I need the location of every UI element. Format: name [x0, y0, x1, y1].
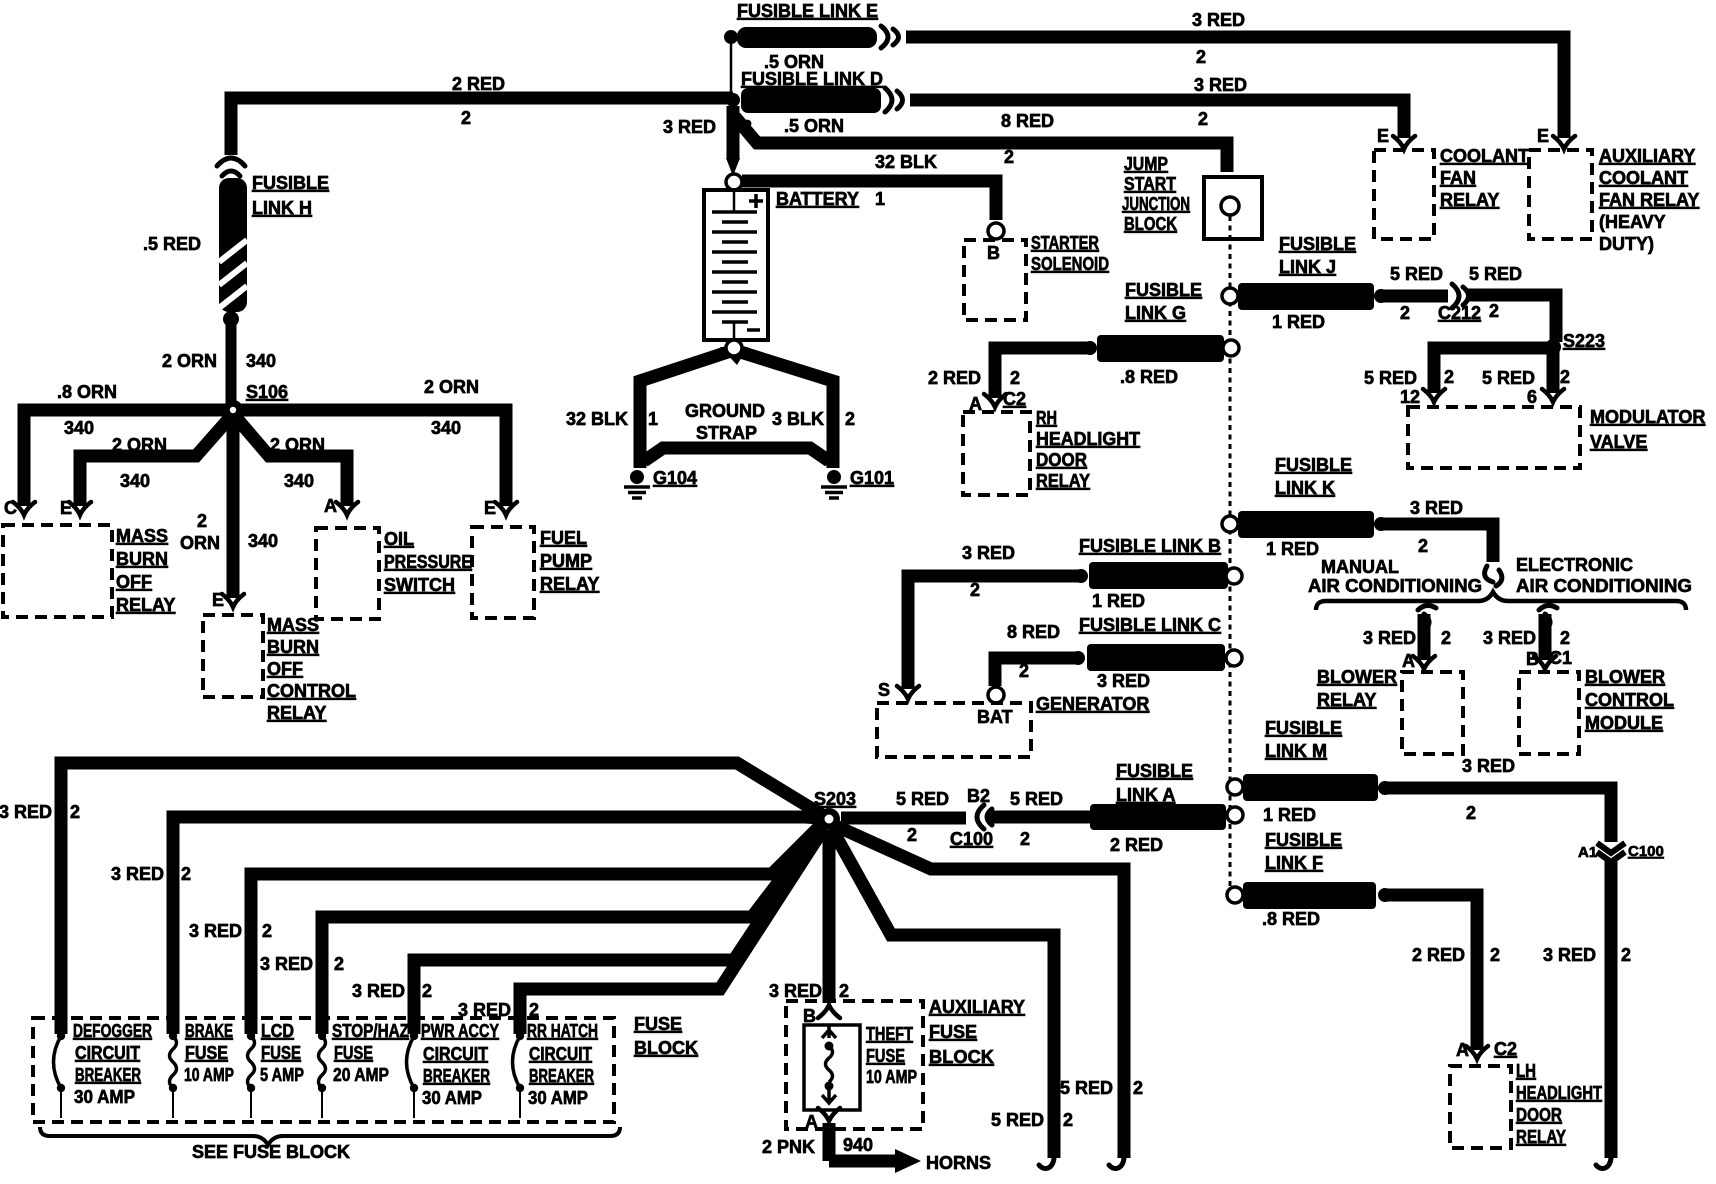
fuse block [33, 1018, 614, 1122]
mass burn off relay [3, 525, 112, 617]
svg-text:LINK A: LINK A [1116, 785, 1175, 805]
svg-text:BLOWER: BLOWER [1317, 667, 1397, 687]
svg-text:3 RED: 3 RED [1483, 628, 1536, 648]
svg-text:FUSE: FUSE [634, 1014, 682, 1034]
svg-text:2 ORN: 2 ORN [162, 351, 217, 371]
svg-text:FUSIBLE: FUSIBLE [1125, 280, 1202, 300]
fusible link G [1223, 340, 1239, 356]
svg-text:FUSE: FUSE [929, 1022, 977, 1042]
svg-text:RR HATCH: RR HATCH [527, 1021, 598, 1041]
svg-text:DOOR: DOOR [1036, 450, 1087, 470]
battery [704, 190, 768, 340]
svg-text:30 AMP: 30 AMP [422, 1088, 482, 1108]
svg-text:FUSIBLE LINK E: FUSIBLE LINK E [737, 1, 878, 21]
svg-text:2: 2 [1560, 628, 1570, 648]
svg-text:PUMP: PUMP [540, 551, 592, 571]
wire 2 ORN 340 to S106 [226, 322, 237, 405]
wire 5 RED from C212 to S223 [1467, 295, 1556, 342]
wire 3 RED to AC split [1381, 524, 1493, 562]
battery + node [726, 174, 742, 190]
AC brace [1316, 592, 1686, 610]
svg-text:AUXILIARY: AUXILIARY [1599, 146, 1695, 166]
svg-text:BLOWER: BLOWER [1585, 667, 1665, 687]
svg-text:E: E [60, 498, 72, 518]
junction dot below link H [223, 311, 239, 327]
svg-text:CONTROL: CONTROL [1585, 690, 1674, 710]
svg-text:3 RED: 3 RED [1543, 945, 1596, 965]
svg-text:RELAY: RELAY [1516, 1127, 1566, 1147]
svg-text:ORN: ORN [180, 533, 220, 553]
svg-text:3 RED: 3 RED [0, 802, 52, 822]
blower control module [1519, 672, 1579, 754]
svg-text:VALVE: VALVE [1590, 432, 1647, 452]
svg-text:B: B [987, 243, 1000, 263]
svg-text:S106: S106 [246, 382, 288, 402]
svg-text:2 RED: 2 RED [928, 368, 981, 388]
wire 3 RED to auxiliary coolant fan relay [906, 37, 1564, 138]
svg-text:S203: S203 [814, 789, 856, 809]
svg-text:2: 2 [1444, 367, 1454, 387]
svg-text:2: 2 [461, 108, 471, 128]
svg-text:SWITCH: SWITCH [384, 575, 455, 595]
svg-text:LCD: LCD [261, 1021, 294, 1041]
svg-text:RELAY: RELAY [1440, 190, 1499, 210]
svg-text:MODULATOR: MODULATOR [1590, 407, 1705, 427]
svg-text:SEE FUSE BLOCK: SEE FUSE BLOCK [192, 1142, 350, 1162]
svg-text:BLOCK: BLOCK [929, 1047, 994, 1067]
svg-text:2: 2 [1063, 1110, 1073, 1130]
svg-text:2: 2 [1490, 945, 1500, 965]
svg-text:OFF: OFF [116, 572, 152, 592]
svg-text:2: 2 [1441, 628, 1451, 648]
svg-text:2: 2 [262, 921, 272, 941]
ground G104 [624, 470, 650, 498]
svg-text:2 ORN: 2 ORN [112, 435, 167, 455]
svg-text:LINK J: LINK J [1279, 257, 1336, 277]
svg-text:6: 6 [1527, 387, 1537, 407]
svg-text:SOLENOID: SOLENOID [1031, 254, 1109, 274]
wire 3 RED down to lower harness [1605, 860, 1618, 1158]
LCD fuse [247, 1032, 255, 1040]
svg-text:3 RED: 3 RED [1097, 671, 1150, 691]
svg-text:BREAKER: BREAKER [423, 1066, 490, 1086]
svg-text:FAN: FAN [1440, 168, 1476, 188]
svg-text:FUEL: FUEL [540, 528, 587, 548]
svg-text:CIRCUIT: CIRCUIT [423, 1044, 488, 1064]
svg-text:DEFOGGER: DEFOGGER [73, 1021, 152, 1041]
svg-text:2: 2 [845, 409, 855, 429]
svg-text:2: 2 [1196, 47, 1206, 67]
svg-text:2: 2 [1004, 147, 1014, 167]
svg-text:B: B [1526, 649, 1539, 669]
oil pressure switch [316, 528, 379, 619]
theft fuse [804, 1025, 860, 1110]
LH headlight door relay [1450, 1066, 1511, 1148]
svg-text:PRESSURE: PRESSURE [384, 552, 472, 572]
ground strap [640, 347, 833, 468]
svg-text:2 ORN: 2 ORN [424, 377, 479, 397]
wire 8 RED to jump start junction block [735, 117, 1227, 172]
wire 3 RED to stop/haz fuse [322, 825, 822, 1034]
svg-text:MODULE: MODULE [1585, 713, 1663, 733]
thin link between E and D junctions [730, 42, 733, 95]
terminal B arrow [818, 1005, 840, 1018]
svg-text:2: 2 [334, 954, 344, 974]
svg-text:2: 2 [181, 864, 191, 884]
svg-text:BURN: BURN [267, 637, 319, 657]
svg-text:5 RED: 5 RED [991, 1110, 1044, 1130]
fusible link C [1087, 644, 1225, 671]
svg-text:3 RED: 3 RED [1192, 10, 1245, 30]
svg-text:CIRCUIT: CIRCUIT [529, 1044, 592, 1064]
mass burn off control relay [203, 615, 263, 697]
svg-text:GENERATOR: GENERATOR [1036, 694, 1149, 714]
svg-text:FUSE: FUSE [185, 1043, 228, 1063]
svg-text:MASS: MASS [267, 615, 319, 635]
svg-text:G104: G104 [653, 468, 697, 488]
svg-text:A: A [324, 496, 337, 516]
svg-text:FUSIBLE: FUSIBLE [252, 173, 329, 193]
see fuse block brace [40, 1127, 620, 1145]
svg-text:2: 2 [70, 802, 80, 822]
blower relay [1402, 672, 1463, 754]
svg-text:G101: G101 [850, 468, 894, 488]
svg-text:RH: RH [1036, 408, 1057, 428]
svg-text:RELAY: RELAY [1317, 690, 1376, 710]
svg-text:30 AMP: 30 AMP [74, 1087, 135, 1107]
generator BAT node [988, 687, 1004, 703]
svg-text:AUXILIARY: AUXILIARY [929, 997, 1025, 1017]
svg-text:3 RED: 3 RED [260, 954, 313, 974]
svg-text:DOOR: DOOR [1516, 1105, 1562, 1125]
svg-text:5 RED: 5 RED [1390, 264, 1443, 284]
pwr accy circuit breaker [410, 1032, 418, 1040]
wire 2 RED to LH headlight door relay [1385, 895, 1477, 1050]
svg-text:340: 340 [284, 471, 314, 491]
fuel pump relay [472, 527, 534, 618]
svg-text:2: 2 [1010, 368, 1020, 388]
svg-text:2: 2 [1020, 829, 1030, 849]
defogger circuit breaker [57, 1032, 65, 1040]
svg-text:BAT: BAT [977, 707, 1013, 727]
svg-text:FUSIBLE LINK B: FUSIBLE LINK B [1079, 536, 1221, 556]
svg-text:2 RED: 2 RED [1412, 945, 1465, 965]
svg-text:BLOCK: BLOCK [1124, 214, 1177, 234]
svg-text:.8 ORN: .8 ORN [57, 382, 117, 402]
svg-text:3 RED: 3 RED [1363, 628, 1416, 648]
svg-text:E: E [1377, 126, 1389, 146]
wire 3 RED to LCD fuse [251, 823, 823, 1034]
svg-text:BATTERY: BATTERY [776, 189, 859, 209]
fusible link M [1227, 779, 1243, 795]
wire 5 RED to modulator valve pin 6 [1547, 347, 1560, 393]
wire .8 ORN 340 to mass burn off relay C [24, 410, 233, 506]
svg-text:START: START [1124, 174, 1176, 194]
svg-text:C212: C212 [1438, 303, 1481, 323]
svg-text:BURN: BURN [116, 549, 168, 569]
svg-text:3 RED: 3 RED [189, 921, 242, 941]
fusible link D [726, 88, 903, 113]
stop/haz fuse [318, 1032, 326, 1040]
fusible link A [1090, 804, 1226, 830]
svg-text:HORNS: HORNS [926, 1153, 991, 1173]
wire 2 ORN 340 to oil pressure switch A [233, 414, 347, 506]
svg-text:A1: A1 [1578, 844, 1597, 861]
svg-text:LH: LH [1516, 1061, 1536, 1081]
fusible link J [1222, 288, 1238, 304]
svg-text:340: 340 [64, 418, 94, 438]
svg-text:FUSIBLE LINK C: FUSIBLE LINK C [1079, 615, 1221, 635]
svg-text:20 AMP: 20 AMP [333, 1065, 389, 1085]
svg-text:2: 2 [839, 981, 849, 1001]
svg-text:1: 1 [648, 409, 658, 429]
svg-text:1 RED: 1 RED [1266, 539, 1319, 559]
svg-text:3 RED: 3 RED [663, 117, 716, 137]
ground G101 [821, 470, 847, 498]
svg-text:DUTY): DUTY) [1599, 234, 1654, 254]
svg-text:STARTER: STARTER [1031, 233, 1099, 253]
svg-text:JUMP: JUMP [1124, 154, 1168, 174]
wire 3 RED to brake fuse [173, 817, 820, 1034]
svg-text:AIR CONDITIONING: AIR CONDITIONING [1308, 576, 1482, 596]
svg-text:RELAY: RELAY [116, 595, 175, 615]
svg-text:(HEAVY: (HEAVY [1599, 212, 1666, 232]
svg-text:.8 RED: .8 RED [1120, 367, 1178, 387]
splice S106 [223, 400, 243, 420]
blower control module drop connector [1539, 605, 1557, 629]
svg-text:JUNCTION: JUNCTION [1122, 194, 1190, 214]
svg-text:C2: C2 [1003, 389, 1026, 409]
battery - node [726, 340, 742, 356]
svg-text:FUSE: FUSE [334, 1043, 373, 1063]
svg-text:3 RED: 3 RED [962, 543, 1015, 563]
RH headlight door relay [963, 412, 1030, 495]
splice S106 dot [223, 400, 243, 420]
wire 3 RED to defogger breaker [61, 763, 824, 1034]
connector C212 [1452, 284, 1459, 308]
wire 5 RED from S203 to C100 [841, 812, 966, 825]
wire 3 RED to C100 A1 [1385, 788, 1611, 842]
svg-text:2: 2 [1466, 803, 1476, 823]
svg-text:LINK M: LINK M [1265, 741, 1327, 761]
svg-text:BLOCK: BLOCK [634, 1038, 698, 1058]
RR hatch circuit breaker [516, 1032, 524, 1040]
wire 3 RED to generator S [908, 576, 1081, 689]
svg-text:10 AMP: 10 AMP [866, 1067, 917, 1087]
svg-text:PWR ACCY: PWR ACCY [421, 1021, 499, 1041]
svg-text:2 RED: 2 RED [1110, 835, 1163, 855]
svg-text:A: A [805, 1112, 818, 1132]
inline connector top of link H [217, 158, 245, 166]
svg-text:32 BLK: 32 BLK [566, 409, 628, 429]
svg-text:3 RED: 3 RED [458, 1000, 511, 1020]
svg-text:1 RED: 1 RED [1092, 591, 1145, 611]
auxiliary fuse block [786, 1001, 923, 1129]
svg-text:2: 2 [197, 511, 207, 531]
svg-text:BREAKER: BREAKER [75, 1065, 141, 1085]
splice S223 [1545, 339, 1561, 355]
svg-text:940: 940 [843, 1135, 873, 1155]
svg-text:32 BLK: 32 BLK [875, 152, 937, 172]
svg-text:ELECTRONIC: ELECTRONIC [1516, 555, 1633, 575]
svg-text:BRAKE: BRAKE [185, 1021, 233, 1041]
svg-text:RELAY: RELAY [540, 574, 599, 594]
svg-text:.8 RED: .8 RED [1262, 909, 1320, 929]
svg-text:RELAY: RELAY [1036, 471, 1090, 491]
svg-text:1 RED: 1 RED [1263, 805, 1316, 825]
svg-text:OFF: OFF [267, 659, 303, 679]
blower relay drop connector [1418, 605, 1436, 629]
wire 3 RED to pwr accy breaker [414, 827, 822, 1034]
svg-text:STOP/HAZ: STOP/HAZ [332, 1021, 409, 1041]
connector C100 B2 [977, 805, 984, 829]
modulator valve [1408, 407, 1580, 468]
svg-text:5 RED: 5 RED [1482, 368, 1535, 388]
svg-text:B2: B2 [967, 786, 990, 806]
auxiliary coolant fan relay [1553, 136, 1575, 149]
svg-text:2: 2 [907, 825, 917, 845]
svg-text:FAN RELAY: FAN RELAY [1599, 190, 1699, 210]
svg-text:2: 2 [1621, 945, 1631, 965]
coolant fan relay [1393, 136, 1415, 149]
svg-text:B: B [803, 1006, 816, 1026]
svg-text:340: 340 [248, 531, 278, 551]
svg-text:THEFT: THEFT [866, 1024, 913, 1044]
svg-text:C100: C100 [1628, 843, 1664, 860]
wire 2 ORN 340 to mass burn off relay E [80, 414, 233, 506]
wire 5 RED drop 1 [836, 826, 1124, 1158]
svg-text:MASS: MASS [116, 526, 168, 546]
inline connector to AC harness [1485, 566, 1502, 586]
svg-text:1 RED: 1 RED [1272, 312, 1325, 332]
svg-text:3 RED: 3 RED [1462, 756, 1515, 776]
wire 3 RED to auxiliary fuse block [823, 830, 836, 1003]
svg-text:E: E [484, 498, 496, 518]
svg-text:5 RED: 5 RED [1364, 368, 1417, 388]
svg-text:C1: C1 [1549, 648, 1572, 668]
svg-text:2 ORN: 2 ORN [270, 435, 325, 455]
wire 32 BLK to starter solenoid [742, 181, 996, 220]
svg-text:.5 RED: .5 RED [143, 234, 201, 254]
svg-text:C: C [4, 498, 17, 518]
svg-text:FUSE: FUSE [866, 1046, 905, 1066]
svg-text:E: E [212, 590, 224, 610]
fusible link F [1227, 887, 1243, 903]
fusible link B [1089, 562, 1228, 589]
svg-text:OIL: OIL [384, 529, 414, 549]
wire 2 PNK 940 to horns [829, 1123, 897, 1161]
svg-text:FUSE: FUSE [261, 1043, 301, 1063]
svg-text:3 RED: 3 RED [352, 981, 405, 1001]
svg-text:2 RED: 2 RED [452, 74, 505, 94]
wire 2 RED from link H to link D junction [231, 98, 733, 155]
wire 5 RED drop 2 [832, 829, 1054, 1158]
generator [877, 703, 1031, 757]
svg-text:2: 2 [1133, 1078, 1143, 1098]
svg-text:FUSIBLE LINK D: FUSIBLE LINK D [741, 69, 883, 89]
svg-text:2: 2 [1019, 661, 1029, 681]
svg-text:2: 2 [1560, 367, 1570, 387]
wire 5 RED to C212 [1381, 290, 1448, 303]
svg-text:3 RED: 3 RED [111, 864, 164, 884]
svg-text:10 AMP: 10 AMP [184, 1065, 234, 1085]
svg-text:S223: S223 [1563, 331, 1605, 351]
svg-text:2: 2 [1489, 301, 1499, 321]
svg-text:RELAY: RELAY [267, 703, 326, 723]
svg-text:COOLANT: COOLANT [1599, 168, 1688, 188]
starter solenoid [988, 223, 1004, 239]
dashed bus line [1229, 216, 1232, 893]
svg-text:30 AMP: 30 AMP [528, 1088, 588, 1108]
jump start junction block [1204, 177, 1262, 239]
svg-text:LINK F: LINK F [1265, 853, 1323, 873]
svg-text:HEADLIGHT: HEADLIGHT [1516, 1083, 1602, 1103]
svg-text:STRAP: STRAP [696, 423, 757, 443]
brake fuse [169, 1032, 177, 1040]
svg-text:.5 ORN: .5 ORN [784, 116, 844, 136]
svg-text:2: 2 [1198, 109, 1208, 129]
wire 5 RED to modulator valve pin 12 [1434, 348, 1553, 393]
svg-text:COOLANT: COOLANT [1440, 146, 1529, 166]
svg-text:8 RED: 8 RED [1001, 111, 1054, 131]
svg-text:1: 1 [875, 189, 885, 209]
svg-text:AIR CONDITIONING: AIR CONDITIONING [1516, 576, 1692, 596]
svg-text:A: A [1456, 1040, 1469, 1060]
svg-text:2: 2 [1400, 303, 1410, 323]
svg-text:A: A [1402, 651, 1415, 671]
svg-text:E: E [1537, 126, 1549, 146]
svg-text:5 RED: 5 RED [1010, 789, 1063, 809]
svg-text:12: 12 [1400, 387, 1420, 407]
svg-text:FUSIBLE: FUSIBLE [1116, 761, 1193, 781]
svg-text:C100: C100 [950, 829, 993, 849]
svg-text:2: 2 [422, 981, 432, 1001]
svg-text:S: S [878, 680, 890, 700]
svg-text:LINK K: LINK K [1275, 478, 1335, 498]
svg-text:C2: C2 [1494, 1039, 1517, 1059]
wire 5 RED from C100 to link A [988, 811, 1095, 824]
connector C100 A1 [1597, 843, 1625, 853]
wire 2 ORN 340 to fuel pump relay E [233, 410, 506, 506]
svg-text:5 RED: 5 RED [1469, 264, 1522, 284]
wire 3 RED battery feed [727, 106, 740, 160]
wire 2 RED to RH headlight door relay [995, 348, 1090, 398]
svg-text:3 RED: 3 RED [1194, 75, 1247, 95]
svg-text:FUSIBLE: FUSIBLE [1265, 718, 1342, 738]
splice S203 [818, 808, 840, 830]
svg-text:5 AMP: 5 AMP [260, 1065, 304, 1085]
svg-text:8 RED: 8 RED [1007, 622, 1060, 642]
svg-text:340: 340 [431, 418, 461, 438]
svg-text:MANUAL: MANUAL [1321, 557, 1399, 577]
svg-text:GROUND: GROUND [685, 401, 765, 421]
svg-text:LINK G: LINK G [1125, 303, 1186, 323]
fusible link H [219, 178, 247, 312]
svg-text:HEADLIGHT: HEADLIGHT [1036, 429, 1140, 449]
svg-text:3 RED: 3 RED [1410, 498, 1463, 518]
svg-text:5 RED: 5 RED [896, 789, 949, 809]
svg-text:LINK H: LINK H [252, 198, 312, 218]
wire 8 RED to generator BAT [995, 658, 1078, 686]
svg-text:CONTROL: CONTROL [267, 681, 356, 701]
svg-text:CIRCUIT: CIRCUIT [75, 1043, 140, 1063]
fusible link K [1222, 516, 1238, 532]
wire 2 ORN 340 to mass burn off control relay E [227, 410, 240, 598]
svg-text:2 PNK: 2 PNK [762, 1137, 815, 1157]
svg-text:2: 2 [1418, 536, 1428, 556]
svg-text:BREAKER: BREAKER [529, 1066, 594, 1086]
svg-text:340: 340 [120, 471, 150, 491]
